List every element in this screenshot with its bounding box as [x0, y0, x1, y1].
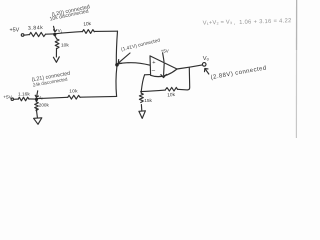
ground: [34, 118, 42, 125]
wire: [24, 34, 30, 37]
svg-text:Vₒ: Vₒ: [203, 56, 210, 62]
svg-text:V₂: V₂: [38, 95, 43, 100]
svg-text:15k: 15k: [144, 98, 152, 104]
wire: [116, 31, 117, 63]
wire feedback down: [187, 68, 189, 90]
svg-text:3.84k: 3.84k: [28, 25, 44, 32]
wire: [29, 98, 35, 100]
svg-text:+5V: +5V: [3, 95, 12, 101]
resistor R 10k feedback: [165, 87, 177, 91]
wire: [55, 48, 57, 57]
svg-text:10k: 10k: [69, 88, 78, 94]
wire: [80, 95, 117, 98]
junction feedback node: [140, 91, 142, 93]
wire: [118, 63, 151, 66]
resistor R 1.16k: [18, 97, 29, 101]
page fold line: [295, 0, 297, 138]
wire: [55, 36, 57, 39]
ground: [53, 57, 59, 63]
paper background: [0, 0, 320, 138]
wire: [141, 75, 144, 92]
svg-text:+5V: +5V: [10, 28, 20, 34]
junction node V1: [53, 33, 56, 36]
node V1 arrow: [54, 26, 57, 32]
svg-text:+: +: [152, 60, 155, 66]
wire: [140, 105, 142, 111]
resistor R 200k: [35, 102, 39, 111]
resistor R 10k vertical: [55, 39, 59, 49]
annotation arrow to summing node: [118, 53, 130, 63]
ground: [139, 111, 146, 119]
wire: [145, 74, 151, 76]
node +5V terminal (bottom): [11, 98, 13, 100]
op-amp U1: [150, 56, 177, 77]
junction node V2: [35, 98, 38, 101]
wire: [38, 97, 68, 98]
wire: [35, 101, 37, 102]
svg-text:1.16k: 1.16k: [18, 92, 30, 98]
svg-text:200k: 200k: [39, 102, 50, 107]
wire: [46, 33, 54, 35]
wire: [178, 88, 188, 91]
svg-text:10k: 10k: [83, 21, 92, 28]
resistor R 15k: [139, 93, 143, 102]
op-amp V+ pin: [163, 53, 164, 62]
resistor R 10k bottom: [68, 95, 80, 99]
svg-text:10k: 10k: [167, 92, 176, 99]
wire: [141, 90, 165, 92]
node V2 arrow: [35, 91, 38, 98]
wire: [14, 98, 19, 100]
wire: [94, 30, 117, 32]
junction summing node: [115, 63, 119, 67]
wire: [36, 108, 37, 117]
svg-text:V₁: V₁: [58, 28, 63, 33]
wire output: [177, 65, 202, 69]
resistor R 3.84k: [30, 32, 46, 36]
node +5V terminal (top): [21, 34, 24, 37]
resistor R 10k top: [83, 30, 95, 34]
svg-text:10k: 10k: [61, 43, 69, 49]
wire: [115, 66, 118, 96]
node Vo terminal: [202, 63, 206, 67]
op-amp V- pin ground arrow: [161, 63, 167, 77]
wire: [56, 32, 83, 34]
svg-text:+5V: +5V: [161, 49, 169, 54]
annotation arrow to Vo: [205, 69, 209, 75]
svg-text:V₁+V₂ = V₃: V₁+V₂ = V₃: [203, 20, 233, 27]
